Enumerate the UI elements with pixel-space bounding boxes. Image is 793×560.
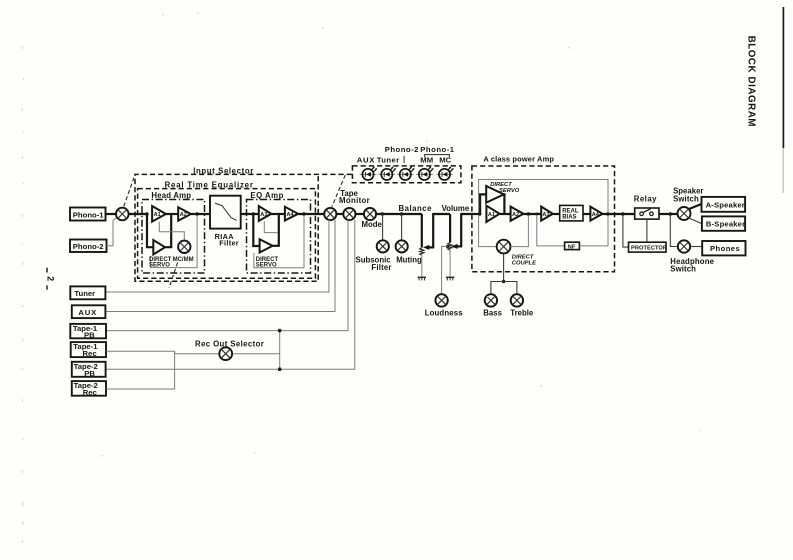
svg-text:Monitor: Monitor [339, 196, 370, 205]
svg-text:MC/MM: MC/MM [173, 257, 194, 263]
node head amp output junction [195, 212, 199, 216]
box real time equalizer dashed outline [138, 189, 316, 279]
wire speaker switch to B-speaker thin [689, 218, 702, 224]
svg-text:Rec Out Selector: Rec Out Selector [195, 339, 264, 348]
wire NF feedback loop [537, 215, 565, 246]
box A class power amp dashed outline [472, 166, 615, 272]
node protector tap junction [621, 212, 625, 216]
node power amp input junction [478, 212, 482, 216]
svg-text:Tuner: Tuner [74, 289, 95, 298]
svg-text:Phono-1: Phono-1 [420, 145, 454, 154]
potentiometer volume [448, 214, 452, 277]
svg-text:A3: A3 [260, 212, 267, 218]
control bass [485, 294, 497, 306]
LED Phono-2 indicator [397, 166, 415, 180]
wire EQ amp feedback network [254, 215, 304, 268]
switch tape monitor 2 [343, 208, 355, 220]
wire A2 to RIAA filter [191, 213, 210, 215]
svg-text:A2: A2 [512, 212, 519, 218]
svg-text:Bass: Bass [483, 309, 502, 318]
box B-Speaker output [702, 216, 745, 230]
potentiometer balance [420, 214, 424, 277]
svg-text:B-Speaker: B-Speaker [706, 220, 745, 229]
LED AUX indicator [360, 166, 378, 180]
wire head amp feedback network [150, 215, 197, 267]
box Phones output [702, 241, 745, 255]
op-amp A4 power [590, 207, 602, 221]
wire phono-2 tick [403, 156, 405, 163]
node EQ amp input junction [252, 212, 256, 216]
op-amp head amp direct servo [153, 240, 165, 255]
switch headphone [678, 240, 690, 252]
wire subsonic drop [382, 214, 384, 240]
wire relay to protector [646, 219, 648, 242]
op-amp A1 power [486, 206, 499, 222]
svg-text:Rec: Rec [83, 388, 98, 397]
svg-text:BIAS: BIAS [562, 215, 576, 221]
relay K1 [635, 208, 659, 219]
op-amp A1 head amp [152, 206, 166, 222]
wire servo output to A1-A2 node [165, 214, 171, 247]
wire A3 to A4 [271, 213, 285, 215]
node headphone tap junction [669, 212, 673, 216]
wire A4 to tape monitor [298, 213, 324, 215]
wire headphone switch to phones [690, 246, 702, 248]
svg-text:Phono-2: Phono-2 [385, 145, 419, 154]
switch mode [364, 208, 376, 220]
svg-text:Loudness: Loudness [425, 308, 464, 317]
box input selector dashed outline [135, 174, 352, 281]
wire tone control drop [503, 254, 505, 282]
wire leader dashed MC/MM [169, 263, 178, 289]
wire tape-1 rec line [106, 351, 280, 354]
svg-text:Head Amp: Head Amp [151, 191, 191, 200]
svg-text:A1: A1 [488, 212, 495, 218]
svg-text:Switch: Switch [673, 194, 699, 203]
wire rec selector vertical [279, 331, 281, 370]
control treble [511, 294, 523, 306]
ground balance [418, 277, 426, 280]
svg-text:Filter: Filter [219, 239, 239, 248]
switch S1 input selector [116, 208, 129, 221]
node NF tap junction [535, 213, 538, 216]
node tape monitor label [339, 189, 370, 205]
wire leader dashed tape monitor [332, 175, 346, 207]
wire speaker switch to A-speaker thick [689, 204, 702, 209]
box head amp dash-dot outline [142, 200, 205, 274]
node RIAA filter label [215, 232, 239, 248]
svg-text:NF: NF [568, 244, 576, 250]
node speaker switch label [673, 186, 703, 203]
box Phono-2 input [70, 240, 107, 253]
wire A2 to A3 power [523, 213, 541, 215]
wire power amp top feedback loop [479, 180, 608, 214]
svg-text:A2: A2 [180, 212, 187, 218]
wire volume wiper with arrow [451, 213, 480, 249]
wire tape-1 pb bus riser [106, 220, 348, 331]
svg-text:MM: MM [420, 156, 433, 165]
wire treble branch [504, 282, 517, 295]
node direct couple label [512, 254, 537, 266]
wire Phono-2 to input selector [107, 217, 118, 246]
wire Phono-1 to input selector [106, 213, 117, 215]
node power direct servo label [490, 182, 520, 194]
svg-text:Balance: Balance [399, 204, 433, 213]
LED Phono-1 MM indicator [416, 166, 434, 180]
filter RIAA [210, 196, 241, 229]
wire phono-1 bracket [425, 155, 450, 158]
wire muting drop [401, 214, 403, 240]
node power amp output junction [606, 212, 610, 216]
node rec junction tape-1 pb [278, 329, 282, 333]
op-amp EQ amp direct servo [260, 239, 273, 252]
svg-text:PB: PB [84, 331, 95, 340]
wire A1 to A2 [166, 213, 178, 215]
svg-text:Rec: Rec [83, 349, 98, 358]
svg-text:AUX: AUX [78, 308, 97, 317]
node head amp input junction [145, 212, 149, 216]
wire real bias to A4 [583, 213, 590, 215]
switch MC/MM [178, 241, 190, 253]
wire tuner bus riser [106, 220, 329, 292]
wire relay to speaker switch [659, 213, 678, 215]
svg-text:A class power Amp: A class power Amp [483, 154, 554, 163]
box LED indicator panel dashed [352, 166, 461, 183]
switch speaker [678, 207, 691, 220]
svg-text:REAL: REAL [562, 208, 579, 214]
svg-text:Switch: Switch [670, 265, 696, 274]
node headphone switch label [670, 257, 714, 274]
svg-text:PB: PB [84, 369, 95, 378]
wire balance wiper with arrow [423, 213, 450, 250]
box AUX input [72, 305, 106, 318]
wire tape monitor 2 to mode [356, 213, 364, 215]
svg-text:AUX: AUX [357, 156, 376, 165]
svg-text:Volume: Volume [442, 204, 470, 213]
box EQ amp dash-dot outline [247, 200, 311, 274]
svg-text:BLOCK DIAGRAM: BLOCK DIAGRAM [746, 36, 757, 128]
svg-text:SERVO: SERVO [499, 188, 520, 194]
block real bias [560, 205, 583, 221]
wire EQ servo output to A3-A4 node [273, 214, 279, 246]
svg-text:DIRECT: DIRECT [512, 254, 534, 260]
node EQ amp output junction [302, 212, 306, 216]
wire bass branch [491, 282, 504, 295]
wire A3 to real bias [553, 213, 560, 215]
switch tape monitor 1 [324, 208, 336, 220]
node subsonic filter label [356, 256, 392, 272]
svg-text:A-Speaker: A-Speaker [706, 200, 745, 209]
node A2 output junction [527, 212, 531, 216]
node page number [45, 268, 55, 290]
node muting tap junction [400, 212, 404, 216]
svg-text:Treble: Treble [510, 309, 534, 318]
box Tuner input [70, 286, 105, 299]
svg-text:2: 2 [45, 276, 55, 281]
svg-text:MC: MC [439, 156, 451, 165]
wire page border rule [782, 7, 784, 193]
wire tape-2 rec riser [106, 351, 174, 389]
wire aux bus riser [106, 220, 335, 312]
wire EQ amp servo feedback thick [253, 214, 259, 247]
wire headphone branch [670, 215, 678, 247]
svg-text:COUPLE: COUPLE [512, 260, 537, 266]
wire A1 to A2 power [500, 213, 511, 215]
svg-text:EQ Amp: EQ Amp [250, 191, 283, 200]
wire direct couple loop left [479, 215, 497, 247]
switch subsonic filter [377, 240, 389, 252]
wire NF to output node [579, 215, 608, 246]
op-amp A2 power [511, 207, 524, 221]
wire RIAA to EQ amp [241, 213, 259, 215]
switch loudness [435, 294, 447, 306]
svg-text:Filter: Filter [371, 263, 391, 272]
wire tape-2 pb bus riser [106, 220, 355, 369]
svg-text:Mode: Mode [362, 220, 383, 229]
svg-text:SERVO: SERVO [256, 262, 277, 268]
node loudness tap junction [446, 245, 449, 248]
op-amp power direct servo [486, 186, 504, 203]
svg-text:Muting: Muting [396, 256, 422, 265]
LED Tuner indicator [379, 166, 397, 180]
node direct servo label head amp [149, 257, 172, 269]
wire direct couple loop right [511, 215, 529, 246]
wire tape monitor 1 to 2 [336, 213, 343, 215]
svg-text:Tuner: Tuner [377, 156, 400, 165]
svg-text:A4: A4 [286, 212, 294, 218]
switch rec out selector [219, 347, 232, 360]
wire input selector to head amp [129, 213, 147, 215]
wire A3 bias tap [264, 221, 278, 232]
ground volume [446, 277, 454, 280]
svg-text:A1: A1 [154, 212, 161, 218]
node tone control junction [502, 280, 506, 284]
box Tape-2 Rec output [72, 381, 106, 397]
wire leader dashed input selector [124, 175, 135, 206]
svg-text:A3: A3 [542, 212, 549, 218]
op-amp A3 power [541, 207, 553, 221]
wire protector branch [623, 215, 629, 247]
svg-text:PROTECTOR: PROTECTOR [631, 245, 667, 251]
svg-text:SERVO: SERVO [149, 262, 170, 268]
wire A1 bias to MC/MM switch [159, 222, 184, 241]
svg-text:Phono-1: Phono-1 [73, 210, 104, 219]
box Phono-1 input [70, 208, 106, 221]
switch muting [396, 240, 408, 252]
op-amp A3 EQ amp [259, 206, 272, 221]
node rec junction tape-2 pb [278, 367, 282, 371]
block NF [565, 242, 580, 250]
svg-text:Relay: Relay [634, 195, 657, 204]
wire mode to balance [376, 213, 422, 215]
box Tape-1 PB input [70, 324, 106, 340]
wire power servo output thick [503, 194, 506, 214]
svg-text:A4: A4 [592, 212, 600, 218]
wire A4 to relay [603, 213, 635, 215]
wire loudness tap [442, 246, 448, 294]
box A-Speaker output [702, 197, 746, 212]
node direct servo label EQ amp [256, 257, 279, 269]
switch direct couple [497, 240, 511, 254]
op-amp A2 head amp [178, 207, 191, 220]
op-amp A4 EQ amp [285, 207, 298, 221]
svg-text:Phones: Phones [710, 244, 740, 253]
wire head amp servo feedback thick [147, 214, 153, 248]
wire power servo input thick [480, 194, 486, 214]
box Tape-2 PB input [72, 362, 106, 378]
box Tape-1 Rec output [71, 342, 106, 358]
block protector [629, 242, 668, 252]
svg-text:Phono-2: Phono-2 [73, 242, 104, 251]
node subsonic tap junction [381, 212, 385, 216]
LED Phono-1 MC indicator [436, 166, 454, 180]
